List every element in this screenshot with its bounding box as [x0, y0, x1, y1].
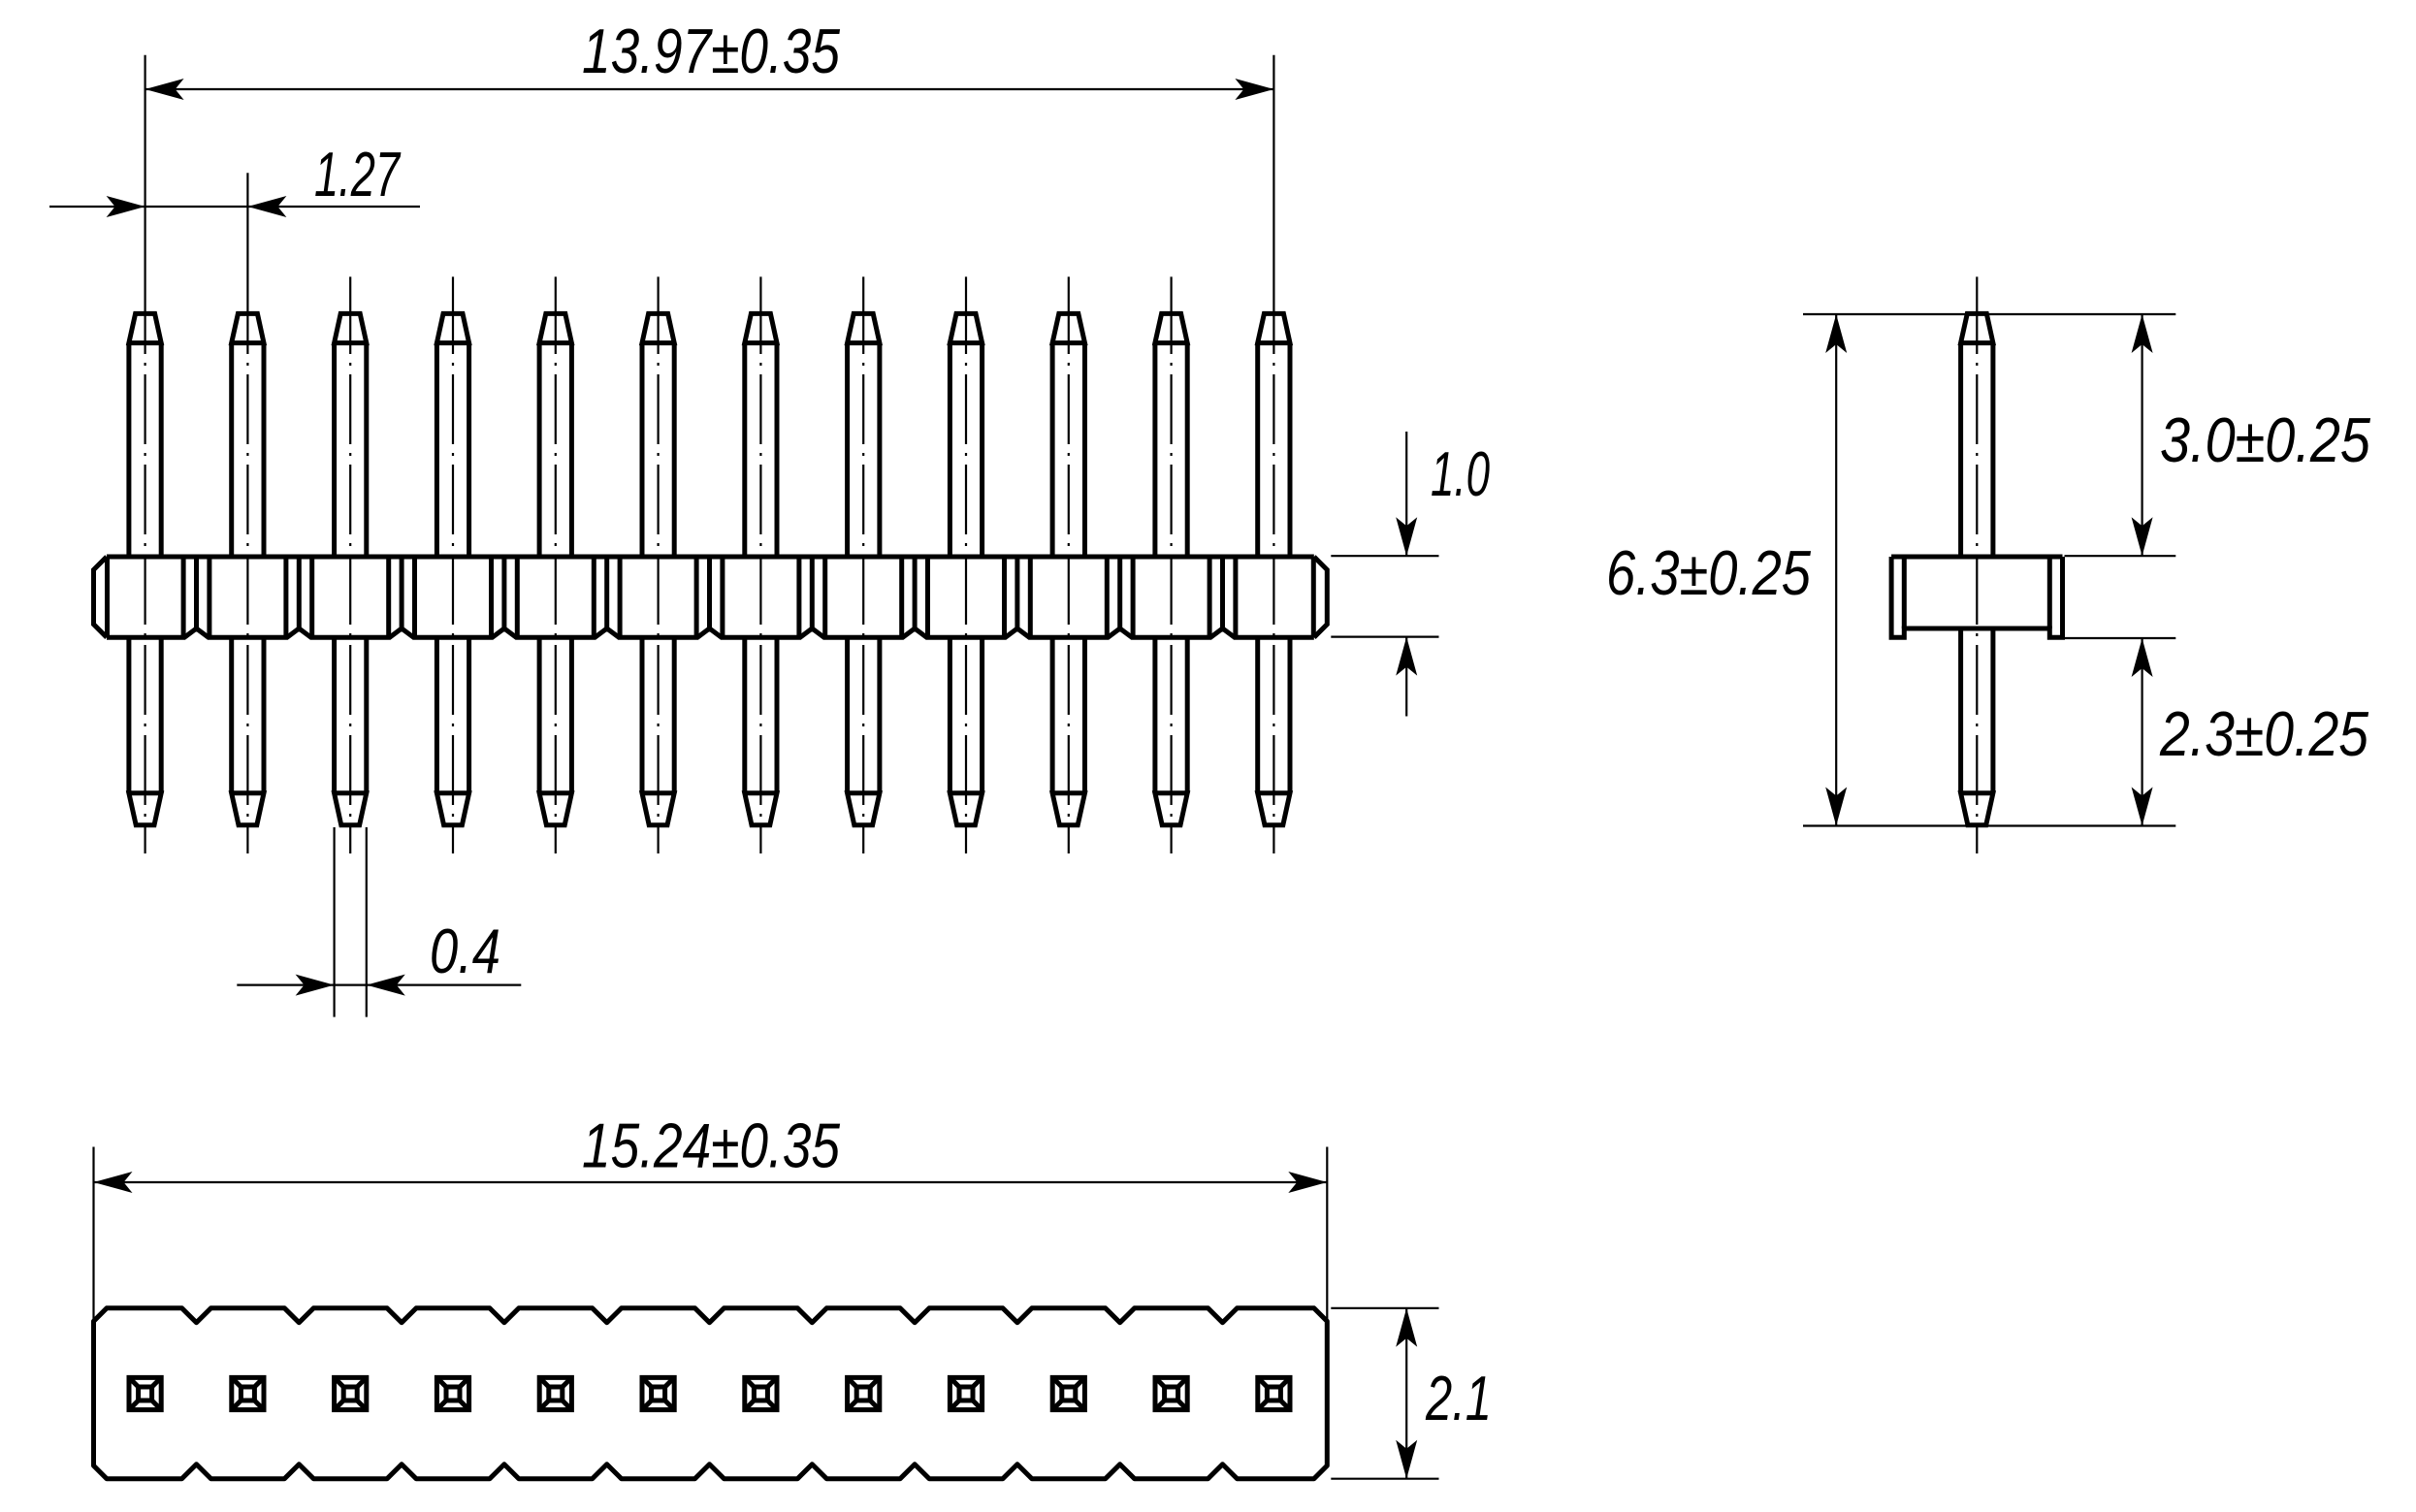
- pin 10 centerline: [1068, 276, 1070, 354]
- pin 5 front view: [539, 313, 571, 824]
- side view top extension line (pin tip level): [1803, 313, 2175, 315]
- dimension 1.27 dimension line with outside arrows: [49, 196, 420, 217]
- pin 9 front view: [950, 313, 982, 824]
- insulator body side view outline: [1891, 557, 2062, 637]
- pin 1 hole bottom view: [129, 1377, 161, 1409]
- insulator segment separator 6 front view: [696, 557, 723, 637]
- pin 2 centerline: [246, 173, 248, 354]
- dimension 2.3±0.25 dimension line with arrows: [2132, 638, 2153, 826]
- pin side view: [1961, 313, 1993, 824]
- svg-text:13.97±0.35: 13.97±0.35: [582, 16, 841, 86]
- dimension 2.1 extension lines: [1331, 1308, 1438, 1479]
- insulator segment separator 11 front view: [1209, 557, 1236, 637]
- pin 11 centerline: [1170, 276, 1172, 354]
- pin 3 front view: [335, 313, 367, 824]
- pin 3 hole bottom view: [335, 1377, 367, 1409]
- svg-text:1.27: 1.27: [314, 139, 402, 209]
- pin 11 hole bottom view: [1155, 1377, 1187, 1409]
- insulator segment separator 8 front view: [902, 557, 928, 637]
- dimension 6.3±0.25 dimension line with arrows: [1825, 314, 1847, 826]
- pin 4 centerline: [452, 276, 454, 354]
- insulator segment separator 4 front view: [492, 557, 518, 637]
- pin 8 front view: [848, 313, 880, 824]
- svg-text:0.4: 0.4: [430, 916, 500, 986]
- insulator segment separator 9 front view: [1005, 557, 1031, 637]
- side view extension line at body bottom: [2065, 637, 2176, 639]
- pin side view centerline: [1976, 276, 1978, 354]
- pin 1 centerline: [145, 55, 146, 354]
- pin 12 centerline: [1272, 55, 1274, 354]
- insulator segment separator 10 front view: [1107, 557, 1133, 637]
- insulator body front view: right chamfered end: [1314, 557, 1328, 637]
- insulator body front view: right end inner edge: [1311, 557, 1316, 637]
- pin 2 front view: [232, 313, 264, 824]
- svg-text:2.1: 2.1: [1425, 1363, 1492, 1433]
- side view bottom extension line (pin end level): [1803, 824, 2175, 826]
- pin 4 hole bottom view: [436, 1377, 468, 1409]
- pin 10 front view: [1052, 313, 1084, 824]
- insulator segment separator 1 front view: [183, 557, 209, 637]
- pin 2 hole bottom view: [232, 1377, 264, 1409]
- dimension 15.24±0.35 dimension line with arrows: [94, 1172, 1328, 1193]
- pin 9 centerline: [965, 276, 967, 354]
- dimension 13.97±0.35 dimension line with arrows: [145, 79, 1274, 100]
- pin 6 centerline: [657, 276, 659, 354]
- pin 3 centerline: [349, 276, 351, 354]
- insulator body front view: left chamfered end: [94, 557, 108, 637]
- pin 12 hole bottom view: [1258, 1377, 1290, 1409]
- pin 6 hole bottom view: [642, 1377, 674, 1409]
- svg-text:6.3±0.25: 6.3±0.25: [1606, 537, 1812, 608]
- pin 8 hole bottom view: [848, 1377, 880, 1409]
- dimension 0.4 dimension line with outside arrows: [237, 975, 521, 996]
- pin 8 centerline: [862, 276, 864, 354]
- pin 10 hole bottom view: [1052, 1377, 1084, 1409]
- insulator segment separator 3 front view: [389, 557, 415, 637]
- side view extension line at body top: [2065, 555, 2176, 557]
- dimension 0.4 extension lines: [335, 827, 367, 1017]
- dimension 15.24±0.35 extension lines: [94, 1147, 1328, 1322]
- pin 12 front view: [1258, 313, 1290, 824]
- insulator body front view: top edge: [107, 555, 1314, 560]
- dimension 1.0 extension lines: [1331, 556, 1438, 636]
- insulator body bottom view outline with notches: [94, 1308, 1328, 1479]
- pin 9 hole bottom view: [950, 1377, 982, 1409]
- insulator segment separator 2 front view: [286, 557, 312, 637]
- dimension 1.0 dimension line with outside arrows: [1396, 432, 1417, 717]
- pin 5 hole bottom view: [539, 1377, 571, 1409]
- pin 1 front view: [129, 313, 161, 824]
- pin 11 front view: [1155, 313, 1187, 824]
- svg-text:2.3±0.25: 2.3±0.25: [2159, 698, 2369, 769]
- insulator body front view: left end inner edge: [105, 557, 110, 637]
- dimension 2.1 dimension line with arrows: [1396, 1308, 1417, 1479]
- pin 7 hole bottom view: [745, 1377, 777, 1409]
- dimension 3.0±0.25 dimension line with arrows: [2132, 314, 2153, 557]
- pin 5 centerline: [555, 276, 557, 354]
- pin 7 front view: [745, 313, 777, 824]
- pin 7 centerline: [759, 276, 761, 354]
- pin 6 front view: [642, 313, 674, 824]
- svg-text:15.24±0.35: 15.24±0.35: [582, 1110, 841, 1181]
- insulator body front view: bottom edge with V notches: [107, 628, 1314, 637]
- insulator segment separator 5 front view: [594, 557, 620, 637]
- svg-text:1.0: 1.0: [1431, 438, 1490, 509]
- pin 4 front view: [436, 313, 468, 824]
- svg-text:3.0±0.25: 3.0±0.25: [2160, 404, 2371, 475]
- insulator segment separator 7 front view: [799, 557, 825, 637]
